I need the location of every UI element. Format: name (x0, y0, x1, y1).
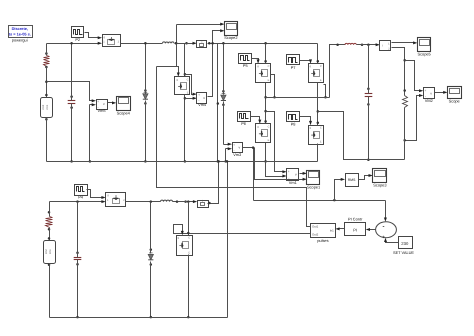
wire P5 gate (252, 59, 260, 64)
svg-text:v: v (203, 96, 205, 100)
node after L2 (176, 200, 187, 203)
IGBT bridge Q1 (256, 64, 271, 83)
scope Scope (448, 87, 462, 104)
scope Scope1 (307, 171, 321, 190)
svg-text:Scope2: Scope2 (224, 35, 237, 40)
svg-text:PI Contr: PI Contr (348, 217, 363, 222)
wire top rail right (208, 42, 318, 45)
svg-text:Vm3: Vm3 (233, 152, 241, 157)
IGBT switch IGBT3 (106, 193, 126, 207)
svg-text:powergui: powergui (12, 38, 28, 43)
wire RMS to Scope3 (359, 174, 373, 180)
svg-text:E: E (320, 141, 322, 144)
wire P7 gate (300, 59, 313, 63)
wire C1 to mid rail (70, 104, 73, 163)
wire B1 to bottom rail (45, 118, 48, 162)
wire Vm2 to Scope (435, 91, 448, 94)
svg-text:P2: P2 (75, 37, 80, 42)
return rail right section (318, 112, 405, 160)
wire L3 to current sensor (357, 43, 380, 46)
svg-text:E: E (187, 92, 189, 95)
wire I3 down (392, 48, 406, 96)
wire Vm3 minus (224, 147, 232, 162)
scope Scope3 (373, 169, 387, 188)
wire Vm4 plus feed (185, 75, 197, 96)
wire ground riser to mid rail (226, 160, 229, 317)
wire C2 vertical (367, 45, 370, 161)
svg-text:Out2: Out2 (312, 233, 319, 237)
svg-text:C: C (320, 127, 322, 130)
node D2 top (222, 42, 225, 45)
svg-text:P7: P7 (291, 65, 296, 70)
wire Vm3 output (243, 146, 255, 200)
resistor R3 (46, 211, 53, 231)
pulse generator P2 (72, 27, 84, 43)
svg-text:pulses: pulses (317, 238, 328, 243)
voltage measurement Vm2 (424, 88, 435, 103)
wire to RMS (335, 178, 346, 201)
pulse generator P6 (238, 112, 251, 127)
IGBT bridge Q4 (309, 126, 324, 145)
bridge right rail upper (317, 44, 320, 64)
svg-text:-: - (383, 224, 385, 230)
wire const to sum (384, 238, 399, 243)
scope Scope4 (117, 97, 131, 116)
svg-text:Cn1: Cn1 (46, 104, 49, 109)
pulse generator P4 (75, 185, 88, 200)
capacitor C2 (365, 87, 373, 105)
wire PI to pulses In1 (335, 227, 344, 230)
svg-text:P5: P5 (243, 63, 248, 68)
bridge left rail lower (264, 143, 267, 163)
bridge mid rail node A (266, 97, 330, 99)
node after L1 (175, 42, 188, 45)
wire Q3 node to Vm1 plus (264, 110, 286, 173)
PI controller (345, 217, 366, 236)
svg-text:+: + (424, 89, 426, 93)
svg-text:C: C (187, 78, 189, 81)
voltage measurement Vm5 (97, 100, 108, 114)
battery B1 (41, 98, 53, 118)
diode D2 (221, 90, 226, 106)
svg-text:VM2: VM2 (425, 98, 433, 103)
constant SET VALUE 230 (393, 237, 414, 255)
svg-text:Scope5: Scope5 (417, 52, 430, 57)
svg-text:Vm1: Vm1 (289, 180, 297, 185)
current measurement I1 (197, 40, 207, 48)
svg-text:v: v (295, 173, 297, 177)
wire IGBT2 emitter (184, 95, 187, 163)
svg-text:E: E (320, 79, 322, 82)
wire I2 out riser (208, 160, 220, 204)
diode D3 (148, 248, 153, 265)
svg-text:v: v (103, 102, 105, 106)
wire top rail left (47, 42, 103, 45)
svg-text:C: C (188, 237, 190, 240)
svg-text:230: 230 (401, 241, 409, 246)
scope Scope2 (224, 22, 237, 41)
gate wire IGBT2 (157, 67, 180, 77)
sum block (376, 222, 397, 241)
svg-text:Vm4: Vm4 (198, 102, 207, 107)
wire Q2 m-loop (324, 85, 327, 99)
svg-text:P8: P8 (291, 122, 296, 127)
wire L2 to current sensor (178, 200, 198, 203)
wire rail to R1 (46, 44, 48, 56)
wire Vm5 to Scope4 (108, 101, 117, 104)
svg-text:+: + (97, 100, 99, 104)
svg-text:SET VALUE: SET VALUE (393, 250, 414, 255)
wire D2 vertical (223, 44, 225, 145)
IGBT bridge Q2 (309, 64, 324, 83)
wire P8 gate (300, 117, 313, 126)
svg-text:+: + (198, 93, 200, 97)
svg-text:Cn1: Cn1 (49, 249, 52, 254)
inductor L1 (163, 42, 177, 44)
IGBT chopper IGBT2 (175, 77, 190, 95)
pulse generator P8 (287, 112, 300, 127)
wire P6 gate (251, 117, 262, 124)
bridge right rail lower (317, 144, 319, 162)
wire Vm1 minus feed (266, 162, 287, 178)
wire B2 to ground rail (48, 264, 51, 318)
bridge left rail middle (264, 83, 267, 124)
wire Vm4 minus feed (184, 97, 197, 100)
pulse generator P5 (239, 54, 252, 69)
wire collector riser bottom (187, 200, 190, 235)
capacitor C3 (74, 252, 82, 266)
wire R3 to battery B2 (48, 228, 51, 241)
pulses subsystem (311, 224, 336, 244)
svg-text:PI: PI (353, 227, 357, 232)
node R1 branch (45, 81, 48, 84)
IGBT bridge Q3 (256, 124, 271, 143)
ground rail bottom (50, 317, 228, 319)
wire L1 to current sensor (177, 42, 197, 45)
svg-text:v: v (430, 91, 432, 95)
wire R2 to return (404, 108, 406, 160)
bridge left rail upper (264, 44, 267, 64)
wire Vm5 minus (89, 103, 96, 162)
svg-text:Scope: Scope (449, 98, 460, 103)
wire Vm4 to Scope2 (208, 29, 225, 96)
wire IGBT3 out (126, 201, 161, 203)
capacitor C1 (68, 95, 76, 109)
bridge output riser (330, 44, 346, 98)
svg-text:ts = 1e-05 s.: ts = 1e-05 s. (9, 31, 31, 36)
inductor L2 (161, 200, 178, 202)
svg-text:+: + (288, 170, 290, 174)
wire scope2 input1 (175, 23, 225, 45)
svg-text:C: C (268, 65, 270, 68)
svg-text:E: E (268, 139, 270, 142)
wire P4 to gate (87, 190, 106, 200)
svg-text:+: + (233, 143, 235, 147)
current measurement I3 (380, 41, 391, 51)
wire branch to Vm2 plus (405, 61, 424, 93)
wire R1 to battery B1 (45, 67, 48, 98)
voltage measurement Vm3 (233, 143, 243, 158)
wire D3 vertical (150, 200, 153, 318)
svg-text:P6: P6 (241, 121, 246, 126)
wire IGBT4 emitter (187, 255, 190, 319)
wire rail to R3 (49, 202, 51, 217)
resistor R2 load (403, 96, 408, 108)
wire node riser x218 (217, 44, 220, 163)
svg-text:Cn2: Cn2 (42, 104, 45, 109)
control feed wire (254, 199, 386, 202)
svg-text:C: C (268, 125, 270, 128)
resistor R1 (44, 52, 50, 68)
scope Scope5 (417, 38, 430, 57)
wire to Vm5 plus (47, 82, 97, 103)
svg-text:Scope3: Scope3 (373, 183, 386, 188)
current measurement I2 (198, 199, 209, 207)
svg-text:RMS: RMS (348, 178, 356, 182)
wire C3 branch (76, 200, 79, 257)
svg-text:P4: P4 (78, 194, 84, 199)
svg-text:E: E (188, 252, 190, 255)
wire Vm2 minus (403, 94, 423, 142)
wire Vm1 to Scope1 (300, 172, 307, 175)
svg-text:Out1: Out1 (312, 225, 319, 229)
svg-text:C: C (320, 65, 322, 68)
IGBT chopper IGBT4 (177, 236, 193, 256)
wire collector riser (177, 44, 187, 77)
voltage measurement Vm1 (287, 169, 299, 186)
bridge right rail middle (317, 83, 320, 126)
wire D2 to Vm3 plus (224, 143, 233, 146)
wire D1 vertical (144, 42, 147, 163)
pulse generator P7 (287, 55, 300, 70)
wire I3 to Scope5 (392, 41, 418, 44)
mid bottom rail (47, 161, 318, 163)
svg-text:E: E (268, 79, 270, 82)
wire scope1 second input (255, 148, 307, 181)
wire Q1 m-loop (271, 75, 276, 99)
svg-text:Scope4: Scope4 (117, 110, 131, 115)
inductor L3 (345, 43, 363, 46)
wire into sum block (384, 201, 387, 222)
wire Out2 gate feed (174, 225, 311, 236)
node bridge left top (264, 42, 267, 45)
wire C1 branch (70, 42, 73, 100)
wire C3 to ground rail (76, 260, 79, 319)
wire bottom rail left (50, 200, 106, 203)
RMS block (346, 174, 359, 187)
svg-text:Cn2: Cn2 (45, 249, 48, 254)
diode D1 (143, 89, 148, 104)
svg-text:In1: In1 (330, 229, 334, 233)
wire P2 to IGBT1 gate (85, 33, 103, 40)
wire Out1 gate feed (157, 67, 311, 227)
battery B2 (44, 241, 56, 264)
wire sum to PI (366, 228, 376, 231)
IGBT switch IGBT1 (103, 35, 121, 47)
svg-text:Vm5: Vm5 (98, 108, 106, 113)
wire IGBT1 out to inductor (121, 43, 163, 45)
svg-text:+: + (382, 235, 385, 241)
voltage measurement Vm4 (197, 93, 207, 108)
powergui block (9, 26, 33, 43)
svg-text:v: v (238, 146, 240, 150)
svg-text:Scope1: Scope1 (307, 184, 320, 189)
